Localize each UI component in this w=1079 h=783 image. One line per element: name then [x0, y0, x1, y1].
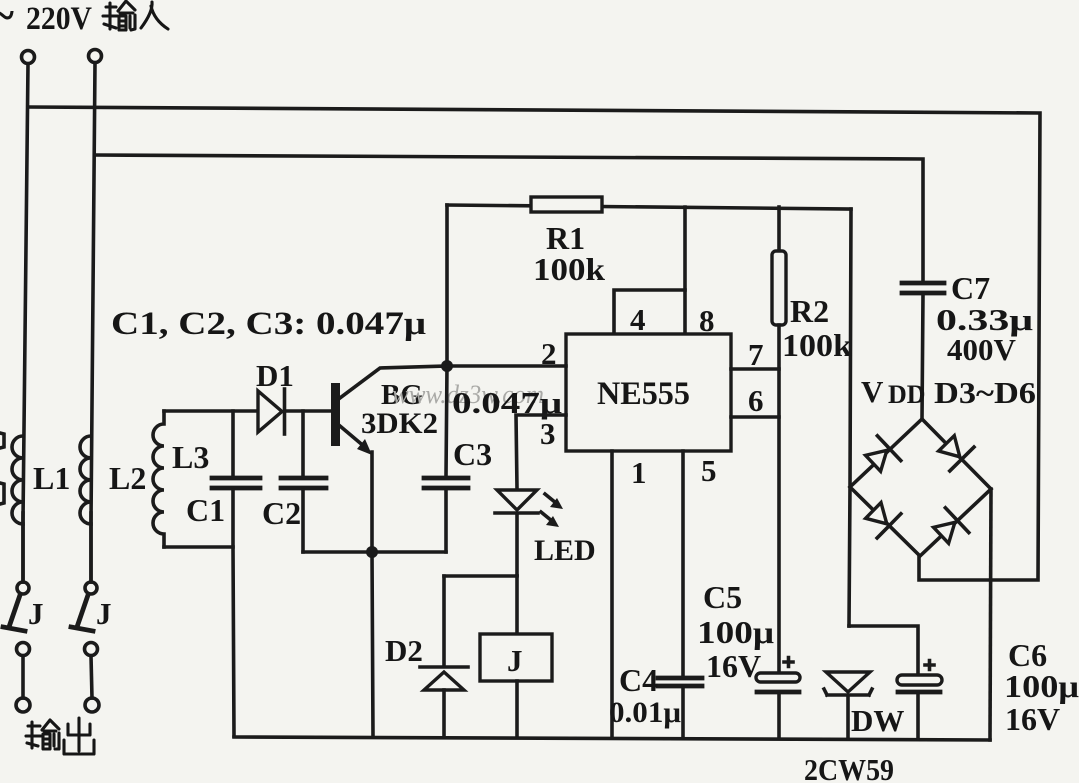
LED arrows	[541, 494, 563, 527]
bridge diode D6 bottom-right	[934, 508, 969, 544]
svg-text:C7: C7	[951, 270, 990, 306]
wire left input stem	[23, 64, 28, 582]
relay coil J box	[480, 634, 552, 681]
svg-text:3DK2: 3DK2	[361, 407, 438, 440]
wire C7 to bridge top	[922, 295, 923, 419]
wire right input stem	[91, 63, 95, 582]
wire L3 bottom	[164, 545, 233, 549]
svg-text:L3: L3	[172, 439, 209, 475]
bridge rectifier edges	[850, 419, 991, 556]
wire pin3	[516, 415, 566, 488]
label ru (入) of 输入	[141, 2, 168, 29]
wire D2 vertical upper	[442, 576, 446, 664]
wire C5 lower	[777, 694, 781, 738]
svg-text:100μ: 100μ	[697, 614, 774, 650]
svg-text:C3: C3	[453, 436, 492, 472]
terminal input left	[22, 51, 35, 64]
wire pin1 vertical	[610, 451, 614, 737]
svg-text:7: 7	[748, 337, 764, 372]
transistor Q1 collector	[340, 366, 447, 398]
svg-text:C4: C4	[619, 662, 658, 698]
svg-text:2CW59: 2CW59	[804, 752, 894, 783]
relay contact J left	[3, 582, 30, 712]
wire LED node down to relay	[515, 576, 519, 634]
wire pin7	[731, 367, 779, 371]
label shu (输) of 输出	[26, 720, 59, 749]
junction pin2 node	[441, 360, 453, 372]
svg-text:220V: 220V	[26, 1, 92, 37]
wire C1 branch vertical upper	[231, 411, 235, 476]
wire pin8 vertical	[683, 207, 687, 334]
label ~220V input text	[0, 0, 92, 40]
diode D1	[258, 389, 285, 434]
wire C1 branch vertical lower to bus	[233, 490, 234, 736]
wire D1 cathode to base	[287, 409, 331, 413]
bridge diode D4 top-right	[939, 436, 974, 471]
wire DW lower to bus	[846, 697, 850, 739]
wire emitter vertical	[372, 452, 373, 736]
svg-text:D3~D6: D3~D6	[934, 375, 1036, 410]
svg-text:6: 6	[748, 383, 764, 418]
LED symbol	[495, 490, 538, 575]
svg-text:C1, C2, C3: 0.047μ: C1, C2, C3: 0.047μ	[111, 306, 426, 342]
wire rail A top	[28, 107, 1040, 580]
wire L1 to switch	[21, 513, 25, 582]
inductor L3	[153, 411, 164, 547]
svg-text:100k: 100k	[782, 327, 852, 363]
svg-text:L1: L1	[33, 460, 70, 496]
wire C4 lower	[681, 688, 685, 737]
capacitor C6 electrolytic	[897, 661, 942, 693]
wire relay to bus	[515, 681, 519, 737]
capacitor C3	[424, 478, 468, 488]
capacitor C7	[902, 283, 944, 293]
wire pin6	[731, 415, 779, 419]
svg-text:L2: L2	[109, 460, 146, 496]
transistor Q1 emitter with arrow	[340, 426, 372, 455]
svg-text:0.01μ: 0.01μ	[609, 696, 681, 729]
wire L3 top to D1	[164, 409, 258, 413]
diode D2	[420, 667, 468, 690]
op-amp U1 NE555 box	[566, 334, 731, 451]
svg-text:J: J	[28, 596, 44, 631]
wire emitter bottom horizontal	[303, 550, 446, 554]
wire C3 lower	[444, 490, 448, 552]
zener DW	[824, 672, 872, 695]
svg-text:3: 3	[540, 416, 556, 451]
wire pin5 vertical	[681, 451, 685, 676]
svg-text:100k: 100k	[533, 251, 605, 287]
svg-text:D2: D2	[385, 633, 423, 668]
wire bridge right vertex down to bus	[990, 489, 991, 740]
svg-text:C5: C5	[703, 579, 742, 615]
wire C2 branch vertical lower	[301, 490, 305, 552]
wire D2 branch top	[444, 574, 517, 578]
svg-text:DW: DW	[851, 703, 904, 738]
svg-text:16V: 16V	[1005, 701, 1060, 737]
svg-text:16V: 16V	[706, 648, 761, 684]
svg-text:J: J	[96, 596, 112, 631]
label shu (输) of 输入	[103, 1, 135, 30]
terminal input right	[89, 50, 102, 63]
wire R2 lower vertical through pins	[777, 325, 781, 673]
wire R1 left branch vertical	[446, 205, 447, 476]
resistor R1	[531, 197, 602, 212]
capacitor C2	[281, 478, 326, 488]
wire R2 branch from rail	[777, 207, 781, 251]
relay contact J right	[71, 582, 99, 712]
svg-text:~: ~	[0, 0, 14, 40]
junction emitter node	[366, 546, 378, 558]
label chu (出) of 输出	[64, 718, 94, 754]
svg-text:DD: DD	[888, 380, 926, 409]
wire pin4 stub	[614, 290, 685, 334]
wire DW top branch	[849, 626, 918, 674]
capacitor C4	[658, 678, 702, 686]
inductor L2	[80, 436, 91, 524]
wire bottom bus	[234, 737, 990, 740]
wire VDD rail	[447, 205, 851, 209]
svg-text:C1: C1	[186, 492, 225, 528]
svg-text:LED: LED	[534, 534, 596, 567]
svg-text:5: 5	[701, 453, 717, 488]
edge fragment coil left	[0, 433, 4, 504]
svg-text:1: 1	[631, 455, 647, 490]
svg-text:V: V	[861, 374, 884, 409]
wire rail B second	[95, 155, 923, 281]
bridge diode D5 bottom-left	[866, 503, 901, 538]
wire C6 lower to bus	[916, 694, 920, 739]
capacitor C5 electrolytic	[756, 658, 800, 693]
wire VDD drop to bridge left	[849, 209, 851, 626]
wire C2 branch vertical upper	[301, 411, 305, 476]
wire L2 to switch	[89, 513, 93, 582]
svg-text:R2: R2	[790, 293, 829, 329]
bridge diode D3 top-left	[866, 436, 901, 472]
svg-text:C2: C2	[262, 495, 301, 531]
svg-text:2: 2	[541, 336, 557, 371]
svg-text:J: J	[507, 643, 523, 678]
capacitor C1	[212, 478, 260, 488]
inductor L1	[12, 436, 23, 524]
svg-text:D1: D1	[256, 358, 294, 393]
resistor R2	[772, 251, 786, 325]
svg-text:4: 4	[630, 302, 646, 337]
svg-text:100μ: 100μ	[1004, 668, 1079, 704]
svg-text:400V: 400V	[947, 332, 1017, 367]
transistor Q1 base bar	[331, 383, 340, 446]
wire pin2	[447, 364, 566, 368]
wire D2 lower to bus	[442, 690, 446, 737]
svg-text:NE555: NE555	[597, 376, 690, 412]
